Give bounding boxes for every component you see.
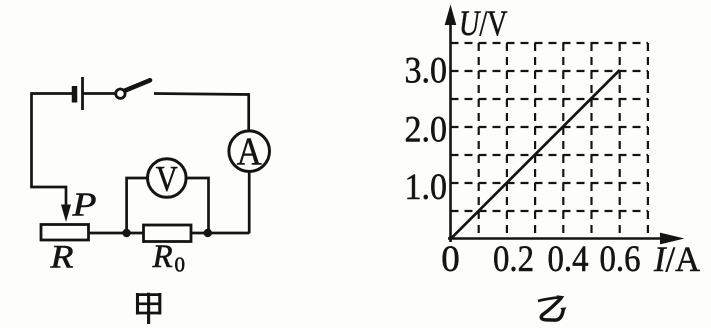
svg-text:3.0: 3.0 [405,51,448,92]
svg-text:0.2: 0.2 [493,239,534,280]
svg-text:R: R [49,240,73,276]
svg-text:2.0: 2.0 [405,110,448,151]
svg-text:0.6: 0.6 [600,239,641,280]
svg-text:0.4: 0.4 [548,239,589,280]
svg-text:R: R [152,239,173,275]
svg-text:I/A: I/A [653,239,700,279]
svg-text:U/V: U/V [459,3,508,43]
svg-text:P: P [71,187,96,224]
svg-text:0: 0 [175,253,186,277]
svg-text:V: V [156,159,178,199]
svg-text:0: 0 [441,239,460,280]
svg-text:A: A [237,130,262,173]
svg-text:1.0: 1.0 [405,167,448,208]
